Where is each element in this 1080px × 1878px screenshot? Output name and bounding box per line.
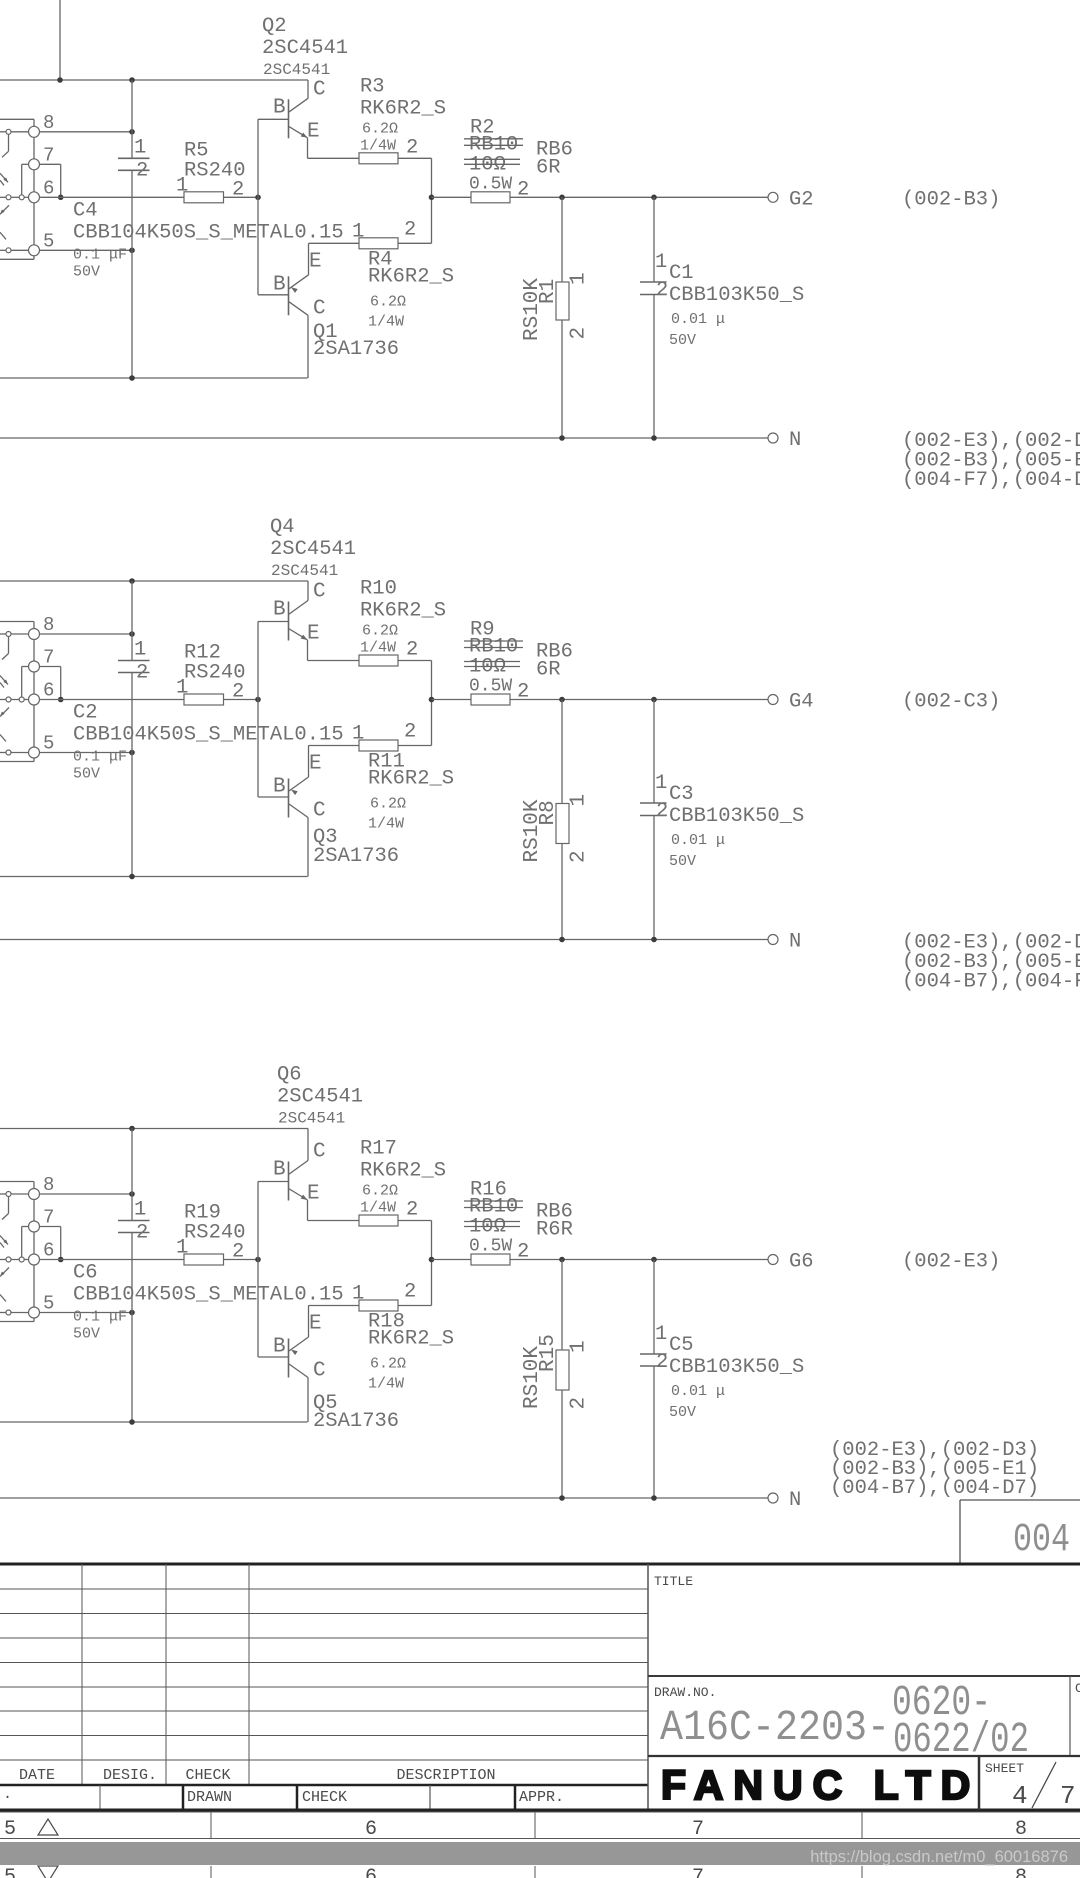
svg-text:C4: C4 xyxy=(73,199,98,222)
frame bottom thick border xyxy=(0,1563,1080,1566)
svg-text:(002-C3): (002-C3) xyxy=(902,691,1000,714)
transistor Q3 (PNP 2SA1736) xyxy=(288,779,290,818)
svg-text:B: B xyxy=(273,776,286,799)
capacitor C2 plates xyxy=(118,660,150,662)
transistor Q6 (NPN 2SC4541) xyxy=(288,1162,290,1201)
svg-text:C3: C3 xyxy=(669,783,694,806)
svg-text:CBB104K50S_S_METAL0.15: CBB104K50S_S_METAL0.15 xyxy=(73,1284,344,1307)
optocoupler pin 6 xyxy=(29,192,40,203)
svg-text:6.2Ω: 6.2Ω xyxy=(370,293,406,310)
transistor Q5 (PNP 2SA1736) xyxy=(288,1339,290,1378)
svg-text:B: B xyxy=(273,96,286,119)
junction N / R8 xyxy=(559,937,565,943)
wire from top edge xyxy=(59,0,61,80)
svg-text:C: C xyxy=(313,297,326,320)
wire emitter to R3 xyxy=(308,157,360,159)
svg-text:1/4W: 1/4W xyxy=(368,1376,404,1393)
zone number row xyxy=(0,1811,1080,1813)
junction N / C1 xyxy=(651,435,657,441)
SHEET box xyxy=(978,1756,981,1810)
svg-text:CBB103K50_S: CBB103K50_S xyxy=(669,805,804,828)
svg-text:2SC4541: 2SC4541 xyxy=(278,1110,345,1128)
svg-text:2SC4541: 2SC4541 xyxy=(263,61,330,79)
junction base rail xyxy=(255,1257,261,1263)
svg-text:2: 2 xyxy=(136,662,148,685)
svg-text:2: 2 xyxy=(568,327,591,340)
svg-text:RK6R2_S: RK6R2_S xyxy=(360,97,446,120)
wire R2 to terminal G2 xyxy=(510,196,768,198)
wire output node to R2 xyxy=(432,196,472,198)
svg-text:5: 5 xyxy=(43,230,54,252)
svg-text:0.1 μF: 0.1 μF xyxy=(73,749,127,766)
wire bottom return xyxy=(0,1421,308,1423)
optocoupler pin 6 xyxy=(29,694,40,705)
svg-text:0.01 μ: 0.01 μ xyxy=(671,832,725,849)
svg-text:7: 7 xyxy=(43,144,54,166)
svg-text:50V: 50V xyxy=(73,263,100,280)
svg-text:E: E xyxy=(309,753,322,776)
svg-text:1: 1 xyxy=(655,1323,667,1346)
optocoupler pin 5 xyxy=(29,1307,40,1318)
svg-text:R8: R8 xyxy=(537,800,560,825)
svg-text:6R: 6R xyxy=(536,659,561,682)
svg-text:E: E xyxy=(307,623,320,646)
wire R5 to base rail xyxy=(224,196,259,198)
junction output node xyxy=(429,1257,435,1263)
svg-text:(004-B7),(004-D7): (004-B7),(004-D7) xyxy=(830,1477,1039,1500)
capacitor C6 vertical wire xyxy=(131,1129,133,1221)
wire pin8 to cap vertical xyxy=(0,633,6,635)
svg-text:RK6R2_S: RK6R2_S xyxy=(368,768,454,791)
svg-text:1: 1 xyxy=(655,251,667,274)
svg-text:1/4W: 1/4W xyxy=(368,816,404,833)
wire R18 to output node xyxy=(398,1305,432,1307)
wire base rail vertical xyxy=(257,622,259,798)
terminal N xyxy=(768,433,778,443)
svg-text:1: 1 xyxy=(568,1340,591,1353)
svg-text:0.5W: 0.5W xyxy=(469,174,512,194)
svg-text:2: 2 xyxy=(404,218,416,241)
svg-text:B: B xyxy=(273,273,286,296)
resistor R15 (RS10K) xyxy=(561,1260,563,1351)
svg-text:C5: C5 xyxy=(669,1334,694,1357)
svg-text:https://blog.csdn.net/m0_60016: https://blog.csdn.net/m0_60016876 xyxy=(810,1848,1068,1866)
svg-text:R15: R15 xyxy=(537,1334,560,1372)
svg-text:RK6R2_S: RK6R2_S xyxy=(368,1328,454,1351)
junction output node xyxy=(429,697,435,703)
svg-text:RK6R2_S: RK6R2_S xyxy=(368,265,454,288)
svg-text:DRAWN: DRAWN xyxy=(187,1789,232,1806)
signature row xyxy=(0,1784,648,1787)
svg-text:APPR.: APPR. xyxy=(519,1789,564,1806)
optocoupler pin 8 xyxy=(29,126,40,137)
svg-text:RK6R2_S: RK6R2_S xyxy=(360,600,446,623)
svg-text:2: 2 xyxy=(656,1351,668,1374)
svg-text:RK6R2_S: RK6R2_S xyxy=(360,1160,446,1183)
wire R4 to output node xyxy=(398,242,432,244)
optocoupler pin 8 xyxy=(29,1189,40,1200)
junction C5 tap xyxy=(651,1257,657,1263)
svg-text:4: 4 xyxy=(1012,1781,1028,1811)
svg-text:1: 1 xyxy=(352,1283,364,1306)
resistor R4 xyxy=(359,238,398,249)
svg-text:N: N xyxy=(789,429,801,452)
svg-text:6R: 6R xyxy=(536,156,561,179)
resistor R3 xyxy=(359,153,398,164)
svg-text:.: . xyxy=(3,1786,12,1803)
vertical between pins xyxy=(33,137,35,159)
capacitor C4 plates xyxy=(118,157,150,159)
wire pin5 to cap vertical xyxy=(0,752,6,754)
optocoupler internal LED / phototransistor (cut off at page edge) xyxy=(6,129,11,134)
svg-text:6.2Ω: 6.2Ω xyxy=(370,1356,406,1373)
svg-text:50V: 50V xyxy=(669,332,696,349)
optocoupler pin 5 xyxy=(29,245,40,256)
svg-text:1/4W: 1/4W xyxy=(368,313,404,330)
wire R10 to output node xyxy=(398,660,432,662)
wire pin6 internal xyxy=(0,1259,6,1261)
svg-text:8: 8 xyxy=(1015,1866,1027,1878)
wire pin7 loops xyxy=(22,666,29,668)
optocoupler internal LED / phototransistor (cut off at page edge) xyxy=(6,632,11,637)
wire pin7 loops xyxy=(22,163,29,165)
wire pin5 to cap vertical xyxy=(0,249,6,251)
revision table lines xyxy=(0,1588,648,1590)
junction N / R1 xyxy=(559,435,565,441)
svg-text:CBB104K50S_S_METAL0.15: CBB104K50S_S_METAL0.15 xyxy=(73,221,344,244)
wire R16 to terminal G6 xyxy=(510,1259,768,1261)
terminal N xyxy=(768,935,778,945)
junction bottom / C6 xyxy=(129,1419,135,1425)
svg-text:C: C xyxy=(313,1141,326,1164)
svg-text:SHEET: SHEET xyxy=(985,1761,1024,1776)
wire N rail xyxy=(0,939,768,941)
capacitor C6 plates xyxy=(118,1220,150,1222)
wire R17 to output node xyxy=(398,1220,432,1222)
svg-text:6: 6 xyxy=(43,1240,54,1262)
svg-text:1: 1 xyxy=(176,677,188,700)
resistor R11 xyxy=(359,740,398,751)
resistor R5 xyxy=(184,192,224,203)
wire R3 to output node xyxy=(398,157,432,159)
junction pin8 / C4 xyxy=(129,129,135,135)
optocoupler pin 5 xyxy=(29,747,40,758)
junction top rail / top wire xyxy=(57,77,63,83)
svg-text:E: E xyxy=(307,120,320,143)
wire top supply rail xyxy=(0,79,308,81)
wire N rail xyxy=(0,437,768,439)
svg-text:5: 5 xyxy=(4,1866,16,1878)
svg-text:1: 1 xyxy=(134,639,146,662)
junction pin7/pin6 xyxy=(58,1257,64,1263)
svg-text:0.01 μ: 0.01 μ xyxy=(671,311,725,328)
wire R11 to output node xyxy=(398,745,432,747)
svg-text:8: 8 xyxy=(1015,1818,1027,1841)
wire base rail vertical xyxy=(257,1182,259,1358)
svg-text:6: 6 xyxy=(365,1866,377,1878)
terminal G4 xyxy=(768,695,778,705)
wire pin6 to resistor R12 xyxy=(40,699,185,701)
svg-text:2: 2 xyxy=(406,639,418,662)
resistor R9 xyxy=(471,694,510,705)
terminal N xyxy=(768,1493,778,1503)
svg-text:C2: C2 xyxy=(73,702,98,725)
wire R9 to terminal G4 xyxy=(510,699,768,701)
wire top supply rail xyxy=(0,580,308,582)
wire emitter to R18 xyxy=(309,1305,360,1307)
sheet zone box 004 xyxy=(960,1499,1080,1501)
vertical between pins xyxy=(33,1200,35,1222)
svg-text:1: 1 xyxy=(655,772,667,795)
svg-text:8: 8 xyxy=(43,112,54,134)
junction pin5 / C4 xyxy=(129,248,135,254)
svg-text:Q2: Q2 xyxy=(262,15,287,38)
junction base rail xyxy=(255,195,261,201)
junction top rail / C4 xyxy=(129,77,135,83)
svg-text:C: C xyxy=(313,800,326,823)
svg-text:2: 2 xyxy=(656,800,668,823)
svg-text:1/4W: 1/4W xyxy=(360,640,396,657)
optocoupler body outline (partial, block Q6) xyxy=(0,1181,34,1183)
svg-text:1: 1 xyxy=(176,1237,188,1260)
svg-text:2: 2 xyxy=(406,136,418,159)
wire pin8 to cap vertical xyxy=(0,1193,6,1195)
svg-text:0.1 μF: 0.1 μF xyxy=(73,246,127,263)
junction bottom / C2 xyxy=(129,874,135,880)
junction pin7/pin6 xyxy=(58,195,64,201)
svg-text:CBB103K50_S: CBB103K50_S xyxy=(669,284,804,307)
wire pin6 internal xyxy=(0,699,6,701)
svg-text:B: B xyxy=(273,1336,286,1359)
junction pin5 / C6 xyxy=(129,1310,135,1316)
svg-text:2: 2 xyxy=(404,721,416,744)
svg-text:1: 1 xyxy=(176,174,188,197)
resistor R18 xyxy=(359,1300,398,1311)
svg-text:CBB104K50S_S_METAL0.15: CBB104K50S_S_METAL0.15 xyxy=(73,724,344,747)
optocoupler pin 7 xyxy=(29,1221,40,1232)
junction pin8 / C2 xyxy=(129,631,135,637)
optocoupler internal LED / phototransistor (cut off at page edge) xyxy=(6,1192,11,1197)
title block outer lines xyxy=(647,1564,649,1810)
svg-text:6.2Ω: 6.2Ω xyxy=(362,1183,398,1200)
terminal G6 xyxy=(768,1255,778,1265)
svg-text:C: C xyxy=(313,581,326,604)
junction base rail xyxy=(255,697,261,703)
optocoupler body outline (partial, block Q4) xyxy=(0,621,34,623)
wire output node to R16 xyxy=(432,1259,472,1261)
capacitor C1 xyxy=(653,197,655,282)
resistor R17 xyxy=(359,1215,398,1226)
svg-text:C: C xyxy=(313,78,326,101)
junction C1 tap xyxy=(651,195,657,201)
junction top rail / C6 xyxy=(129,1126,135,1132)
svg-text:1: 1 xyxy=(134,136,146,159)
optocoupler pin 7 xyxy=(29,159,40,170)
wire N rail xyxy=(0,1497,768,1499)
svg-text:2: 2 xyxy=(406,1199,418,1222)
resistor R2 xyxy=(471,192,510,203)
svg-text:6.2Ω: 6.2Ω xyxy=(362,120,398,137)
svg-text:C6: C6 xyxy=(73,1262,98,1285)
svg-text:DRAW.NO.: DRAW.NO. xyxy=(654,1685,716,1700)
svg-text:50V: 50V xyxy=(669,1404,696,1421)
wire emitter to R10 xyxy=(308,660,360,662)
svg-text:5: 5 xyxy=(43,733,54,755)
svg-text:N: N xyxy=(789,1489,801,1512)
svg-text:2SC4541: 2SC4541 xyxy=(271,562,338,580)
svg-text:5: 5 xyxy=(43,1293,54,1315)
svg-text:8: 8 xyxy=(43,614,54,636)
svg-text:R10: R10 xyxy=(360,578,397,601)
svg-text:DESCRIPTION: DESCRIPTION xyxy=(396,1767,495,1784)
wire pin6 internal xyxy=(0,196,6,198)
junction R15 tap xyxy=(559,1257,565,1263)
svg-text:E: E xyxy=(309,250,322,273)
svg-text:(002-E3): (002-E3) xyxy=(902,1251,1000,1274)
svg-text:7: 7 xyxy=(43,647,54,669)
junction N / C5 xyxy=(651,1495,657,1501)
svg-text:DESIG.: DESIG. xyxy=(103,1767,157,1784)
watermark band xyxy=(0,1842,1080,1865)
svg-text:0.5W: 0.5W xyxy=(469,1237,512,1257)
junction C3 tap xyxy=(651,697,657,703)
svg-text:(004-B7),(004-F7): (004-B7),(004-F7) xyxy=(902,971,1080,994)
svg-text:2SC4541: 2SC4541 xyxy=(262,37,348,60)
svg-text:6: 6 xyxy=(365,1818,377,1841)
svg-text:B: B xyxy=(273,599,286,622)
svg-text:CHECK: CHECK xyxy=(185,1767,230,1784)
optocoupler body outline (partial, block Q2) xyxy=(0,118,34,120)
wire bottom return xyxy=(0,377,308,379)
wire R19 to base rail xyxy=(224,1259,259,1261)
wire emitter to R17 xyxy=(308,1220,360,1222)
wire emitter to R4 xyxy=(309,242,360,244)
svg-text:1: 1 xyxy=(568,794,591,807)
junction top rail / C2 xyxy=(129,578,135,584)
resistor R16 xyxy=(471,1254,510,1265)
svg-text:2SC4541: 2SC4541 xyxy=(277,1086,363,1109)
svg-text:1: 1 xyxy=(134,1199,146,1222)
wire bottom return xyxy=(0,876,308,878)
transistor Q2 (NPN 2SC4541) xyxy=(288,99,290,138)
svg-text:1: 1 xyxy=(352,723,364,746)
capacitor C4 vertical wire xyxy=(131,80,133,158)
svg-text:7: 7 xyxy=(692,1866,704,1878)
svg-text:5: 5 xyxy=(4,1818,16,1841)
svg-text:(002-B3): (002-B3) xyxy=(902,188,1000,211)
junction pin7/pin6 xyxy=(58,697,64,703)
svg-text:2: 2 xyxy=(568,1397,591,1410)
svg-text:6.2Ω: 6.2Ω xyxy=(370,796,406,813)
junction bottom / C4 xyxy=(129,375,135,381)
vertical between pins xyxy=(33,640,35,662)
svg-text:R17: R17 xyxy=(360,1138,397,1161)
svg-text:0.1 μF: 0.1 μF xyxy=(73,1309,127,1326)
svg-text:G2: G2 xyxy=(789,188,814,211)
svg-text:G4: G4 xyxy=(789,691,814,714)
svg-text:2: 2 xyxy=(136,159,148,182)
svg-text:R3: R3 xyxy=(360,75,385,98)
junction N / R15 xyxy=(559,1495,565,1501)
resistor R12 xyxy=(184,694,224,705)
svg-text:C: C xyxy=(1075,1681,1080,1696)
svg-text:2SA1736: 2SA1736 xyxy=(313,338,399,361)
wire pin7 loops xyxy=(22,1226,29,1228)
wire base rail vertical xyxy=(257,119,259,294)
svg-text:R1: R1 xyxy=(537,279,560,304)
resistor R8 (RS10K) xyxy=(561,700,563,804)
svg-text:TITLE: TITLE xyxy=(654,1574,693,1589)
svg-text:2SA1736: 2SA1736 xyxy=(313,1410,399,1433)
svg-text:2: 2 xyxy=(656,279,668,302)
wire top supply rail xyxy=(0,1128,308,1130)
svg-text:Q4: Q4 xyxy=(270,516,295,539)
svg-text:6: 6 xyxy=(43,680,54,702)
svg-text:7: 7 xyxy=(692,1818,704,1841)
capacitor C3 xyxy=(653,700,655,804)
svg-text:0.01 μ: 0.01 μ xyxy=(671,1383,725,1400)
svg-text:8: 8 xyxy=(43,1174,54,1196)
junction R8 tap xyxy=(559,697,565,703)
resistor R10 xyxy=(359,655,398,666)
svg-text:CHECK: CHECK xyxy=(302,1789,347,1806)
junction pin5 / C2 xyxy=(129,750,135,756)
svg-text:2: 2 xyxy=(404,1281,416,1304)
wire pin8 to cap vertical xyxy=(0,131,6,133)
junction N / C3 xyxy=(651,937,657,943)
wire R12 to base rail xyxy=(224,699,259,701)
svg-text:6: 6 xyxy=(43,177,54,199)
svg-text:50V: 50V xyxy=(669,853,696,870)
svg-text:1: 1 xyxy=(352,220,364,243)
svg-text:R6R: R6R xyxy=(536,1219,573,1242)
junction pin8 / C6 xyxy=(129,1191,135,1197)
optocoupler pin 6 xyxy=(29,1254,40,1265)
svg-text:DATE: DATE xyxy=(19,1767,55,1784)
svg-text:2: 2 xyxy=(568,850,591,863)
capacitor C2 vertical wire xyxy=(131,581,133,661)
svg-text:2SC4541: 2SC4541 xyxy=(270,538,356,561)
wire pin6 to resistor R19 xyxy=(40,1259,185,1261)
svg-text:Q6: Q6 xyxy=(277,1064,302,1087)
junction output node xyxy=(429,195,435,201)
svg-text:G6: G6 xyxy=(789,1251,814,1274)
wire pin5 to cap vertical xyxy=(0,1312,6,1314)
svg-text:B: B xyxy=(273,1159,286,1182)
terminal G2 xyxy=(768,192,778,202)
svg-text:1/4W: 1/4W xyxy=(360,137,396,154)
svg-text:7: 7 xyxy=(43,1207,54,1229)
svg-text:C1: C1 xyxy=(669,262,694,285)
resistor R1 (RS10K) xyxy=(561,197,563,282)
svg-text:004: 004 xyxy=(1013,1518,1070,1563)
svg-text:1: 1 xyxy=(568,272,591,285)
wire output node to R9 xyxy=(432,699,472,701)
capacitor C5 xyxy=(653,1260,655,1355)
svg-text:2: 2 xyxy=(136,1222,148,1245)
resistor R19 xyxy=(184,1254,224,1265)
svg-text:C: C xyxy=(313,1360,326,1383)
svg-text:FANUC LTD: FANUC LTD xyxy=(661,1762,980,1808)
junction R1 tap xyxy=(559,195,565,201)
svg-text:E: E xyxy=(307,1183,320,1206)
transistor Q4 (NPN 2SC4541) xyxy=(288,602,290,641)
svg-text:CBB103K50_S: CBB103K50_S xyxy=(669,1356,804,1379)
svg-text:2SA1736: 2SA1736 xyxy=(313,845,399,868)
wire pin6 to resistor R5 xyxy=(40,196,185,198)
svg-text:(004-F7),(004-D7): (004-F7),(004-D7) xyxy=(902,469,1080,492)
optocoupler pin 8 xyxy=(29,629,40,640)
